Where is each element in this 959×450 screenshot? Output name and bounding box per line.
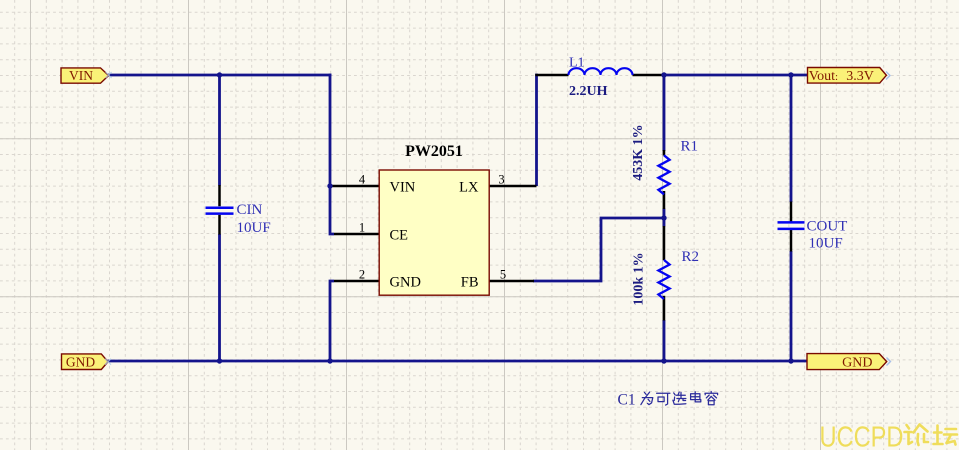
connection cross at left GND tip <box>105 359 111 365</box>
svg-text:COUT: COUT <box>807 219 848 235</box>
svg-text:VIN: VIN <box>390 180 416 196</box>
resistor R2 bottom lead <box>663 296 666 321</box>
wire top rail L1 to Vout flag <box>664 74 809 77</box>
svg-text:2: 2 <box>359 268 365 282</box>
resistor R2 designator <box>682 249 700 265</box>
watermark UCCPD forum <box>820 422 958 450</box>
svg-text:10UF: 10UF <box>237 220 271 236</box>
pin number 3 <box>498 173 504 187</box>
resistor R1 bottom lead <box>663 191 666 209</box>
capacitor COUT bottom lead <box>790 230 793 252</box>
wire R1 top segment <box>663 75 666 151</box>
capacitor CIN value 10UF <box>237 220 271 236</box>
no-connect tick at Vout tip <box>886 72 890 80</box>
pin 2 lead <box>334 280 379 283</box>
note C1 optional capacitor text <box>618 392 718 409</box>
svg-text:GND: GND <box>66 354 95 369</box>
wire FB to divider node <box>533 218 664 281</box>
svg-text:453K 1%: 453K 1% <box>631 124 646 180</box>
wire top rail VIN to corner <box>108 74 331 77</box>
svg-text:2.2UH: 2.2UH <box>569 84 608 99</box>
junction top rail at CIN <box>217 72 222 77</box>
connection cross at VIN tip <box>106 72 112 78</box>
port VIN flag <box>61 68 109 83</box>
pin name GND <box>390 275 421 291</box>
capacitor CIN bottom lead <box>218 215 221 235</box>
svg-text:1: 1 <box>359 221 365 235</box>
svg-text:R2: R2 <box>682 249 700 265</box>
junction FB divider node <box>661 215 666 220</box>
pin number 5 <box>500 268 506 282</box>
svg-text:CIN: CIN <box>237 202 263 218</box>
pin number 1 <box>359 221 365 235</box>
junction pin4 node <box>327 183 332 188</box>
capacitor CIN plates <box>206 208 234 214</box>
pin name CE <box>390 228 409 244</box>
wire COUT top segment <box>790 75 793 202</box>
wire GND bottom rail <box>108 360 809 363</box>
svg-text:L1: L1 <box>569 56 585 71</box>
port Vout flag <box>808 68 887 85</box>
junction top rail at COUT <box>788 72 793 77</box>
IC U1 PW2051 body <box>379 170 489 295</box>
wire COUT bottom segment <box>790 251 793 361</box>
inductor L1 left lead <box>535 74 568 77</box>
wire GND pin vertical at x=330 <box>330 281 334 361</box>
capacitor CIN designator <box>237 202 263 218</box>
capacitor CIN top lead <box>218 185 221 206</box>
capacitor COUT top lead <box>790 202 793 222</box>
resistor R1 body <box>658 155 669 194</box>
IC title PW2051 <box>405 143 463 160</box>
pin 5 lead <box>489 280 534 283</box>
svg-text:10UF: 10UF <box>809 236 843 252</box>
wire R2 bottom segment <box>663 320 666 361</box>
wire CIN lower segment <box>218 234 221 361</box>
svg-text:UCCPD: UCCPD <box>820 422 904 450</box>
port GND flag left <box>62 354 109 370</box>
capacitor COUT plates <box>778 222 805 229</box>
wire LX vertical at x=536.5 <box>535 74 538 186</box>
svg-text:100k 1%: 100k 1% <box>632 252 647 305</box>
pin 4 lead <box>331 185 379 188</box>
capacitor COUT value 10UF <box>809 236 843 252</box>
resistor R1 value 453K 1% <box>631 124 646 180</box>
svg-text:CE: CE <box>390 228 409 244</box>
svg-text:VIN: VIN <box>69 68 93 83</box>
junction GND rail at COUT <box>788 358 793 363</box>
pin number 4 <box>359 173 366 187</box>
pin name VIN <box>390 180 416 196</box>
svg-text:GND: GND <box>842 355 872 370</box>
pin 1 lead <box>334 233 379 236</box>
junction GND rail at x=330 <box>327 358 332 363</box>
svg-text:GND: GND <box>390 275 421 291</box>
svg-text:PW2051: PW2051 <box>405 143 463 160</box>
inductor L1 right lead <box>633 74 666 77</box>
capacitor COUT designator <box>807 219 848 235</box>
svg-text:4: 4 <box>359 173 366 187</box>
resistor R2 value 100k 1% <box>632 252 647 305</box>
pin 3 lead <box>489 185 536 188</box>
resistor R1 top lead <box>663 150 666 156</box>
svg-text:FB: FB <box>461 275 479 291</box>
inductor L1 coil <box>569 68 633 75</box>
svg-text:C1: C1 <box>618 392 636 409</box>
wire vertical at x=330 from top rail to CE pin <box>330 74 334 234</box>
inductor L1 value 2.2UH <box>569 84 608 99</box>
svg-text:R1: R1 <box>681 139 699 155</box>
svg-text:LX: LX <box>459 180 479 196</box>
pin name LX <box>459 180 479 196</box>
pin name FB <box>461 275 479 291</box>
no-connect tick at right GND tip <box>887 358 891 366</box>
inductor L1 designator <box>569 56 585 71</box>
wire R1 bottom to FB node <box>663 209 666 227</box>
resistor R2 body <box>658 260 669 299</box>
junction GND rail at R2 <box>661 358 666 363</box>
svg-text:3: 3 <box>498 173 504 187</box>
resistor R2 top lead <box>663 226 666 260</box>
pin number 2 <box>359 268 365 282</box>
svg-text:5: 5 <box>500 268 506 282</box>
junction top rail at R1 <box>661 72 666 77</box>
junction GND rail at CIN <box>217 358 222 363</box>
port GND flag right <box>807 354 887 371</box>
wire CIN upper segment <box>218 75 221 186</box>
resistor R1 designator <box>681 139 699 155</box>
